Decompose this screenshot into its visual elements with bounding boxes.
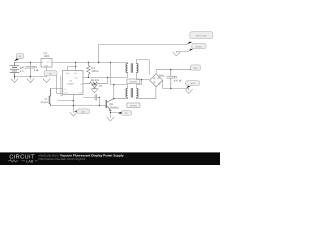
junction (75.7,66.5) [75,66,76,67]
wire U1 pin2 from rail [75,63,77,71]
wire U1 gnd vertical [72,95,74,113]
junction (73.4,100.6) [73,100,74,101]
svg-text:heater: heater [196,45,202,48]
wire xfmr1 top-left pin [127,63,129,64]
junction (94.6,83.6) [94,83,95,84]
svg-text:470 μF: 470 μF [174,79,183,82]
node flag emitter [117,111,131,116]
pin labels regulator [42,61,52,67]
junction (98.7,62.5) [98,62,99,63]
node flag gnd U1 [74,109,90,114]
wire xfmr2 bottom-right pin [137,87,156,99]
ground D1 [91,89,98,93]
ground heater [175,51,177,52]
wire xfmr1 bottom-right pin [137,73,150,80]
junction (30.4,76.5) [30,76,31,77]
bridge rectifier BR1 [150,74,163,87]
junction (110.4,62.5) [110,62,111,63]
pin labels U1 [63,72,83,94]
svg-text:BR1: BR1 [159,74,165,77]
wire xfmr2 top-left [110,85,127,89]
wire U1 left pin B [61,76,63,95]
junction (88.4,77.4) [88,77,89,78]
ground battery [11,79,18,83]
junction (170.8,69.7) [170,69,171,70]
svg-text:http://www.circuitlab.com/c/2s: http://www.circuitlab.com/c/2sj2wk [39,157,86,161]
wire xfmr1 bottom-left pin [127,73,129,78]
wire U1 pin1 loop [68,67,76,71]
label box XFMR2 [127,103,140,107]
wire main rail left [15,62,42,64]
node flag output plus [190,65,201,70]
svg-text:GND: GND [44,64,49,67]
ground U1 [70,112,77,116]
wire C1 ground stub [29,77,31,80]
ground regulator [43,79,50,83]
wire base line y105.5 [50,105,106,107]
junction (30.4,62.5) [30,62,31,63]
svg-text:R2 47k: R2 47k [91,79,100,82]
svg-text:LAB: LAB [26,160,34,164]
wire rail end drop [109,63,111,85]
wire xfmr2 bottom-left pin [114,97,128,98]
svg-text:SW2: SW2 [74,72,78,75]
svg-text:SW1: SW1 [66,72,70,75]
footer bar [0,152,220,165]
svg-text:GND: GND [64,92,69,95]
wire heater top [99,43,188,45]
svg-text:2N3904: 2N3904 [110,106,120,109]
junction (14.5,76.5) [14,76,15,77]
junction (99.3,97.4) [99,97,100,98]
inductor L1 [49,89,50,106]
wire xfmr2 top-right pin [137,80,142,89]
wire emitter down [109,110,111,117]
junction (113.8,84.5) [113,84,114,85]
regulator U2 box [41,59,52,68]
junction (88.4,62.5) [88,62,89,63]
resistor R2 [83,82,108,85]
wire heater riser [98,44,100,62]
op-amp U1 box LT1073 [63,71,84,95]
diode D1 [92,84,97,90]
wire R2 riser [107,77,109,83]
svg-text:7805: 7805 [44,55,50,58]
wire emitter branch [110,112,117,114]
transformer XFMR1 [126,64,138,73]
battery BAT1 [10,63,19,80]
wire collector vertical [113,85,115,99]
svg-text:XFMR2: XFMR2 [130,104,138,107]
wire heater return [176,50,188,52]
wire bridge output top [156,70,191,74]
junction (170.8,88.5) [170,88,171,89]
wire branch y100.6 [58,100,73,102]
logo resistor squiggle [8,160,38,162]
svg-text:1 μF: 1 μF [34,69,40,72]
wire regulator gnd pin [46,67,48,77]
junction (110.4,112.5) [110,112,111,113]
node flag heater 1 [187,32,213,45]
svg-text:SW2: SW2 [78,92,82,95]
svg-text:LT1073: LT1073 [67,82,75,85]
transformer XFMR2 [126,88,138,97]
svg-text:100 Ω: 100 Ω [92,70,99,73]
junction (73.4,105.5) [73,105,74,106]
ground output [185,89,192,93]
junction (99.3,105.5) [99,105,100,106]
wire L1 top to U1 [50,88,62,90]
wire xfmr1 top-right pin [137,60,150,75]
capacitor C4 plates [95,94,97,100]
node flag battery [14,54,24,62]
junction dots [14,62,172,113]
wire U1 left pin A [57,74,63,93]
svg-text:XFMR1: XFMR1 [130,81,138,84]
wire U1 bottom right pin y97.3 [83,96,99,98]
wire y97.3 drop [98,97,100,105]
junction (113.8,98.7) [113,98,114,99]
svg-text:15 μH: 15 μH [41,101,48,104]
wire bottom rail [15,76,47,78]
svg-text:SW1: SW1 [74,76,78,79]
wire main rail right of regulator [52,62,128,64]
junction (75.7,62.5) [75,62,76,63]
node flag output gnd [186,81,200,89]
ground Q1 [107,117,114,121]
node flag regulator out [44,71,57,77]
node flag heater 2 [189,43,206,51]
junction (107.6,77.4) [107,77,108,78]
wire bridge bottom rail [163,80,189,88]
ground C1 [27,79,34,83]
label box XFMR1 [127,79,140,84]
resistor R1 [87,63,91,78]
svg-text:9 V: 9 V [20,70,24,73]
capacitor C1 [26,63,34,77]
svg-text:D1: D1 [99,85,103,88]
junction (141.6,79.6) [141,79,142,80]
wire W1 SW pin [83,76,128,78]
svg-text:30V: 30V [194,67,198,70]
svg-text:VFD heater: VFD heater [196,35,207,38]
capacitor C2 [167,70,175,89]
wire output gnd stub [188,89,190,91]
transistor Q1 [106,99,114,111]
component labels [20,52,183,109]
